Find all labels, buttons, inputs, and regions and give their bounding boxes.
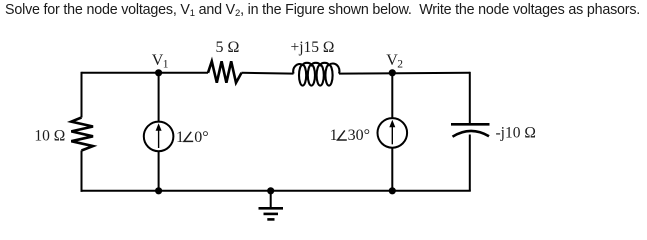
- wire V2 branch lower: [391, 148, 393, 191]
- inductor L +j15ohm (coil): [293, 63, 339, 86]
- wire top-left segment: [82, 72, 209, 74]
- wire left vertical: [81, 72, 83, 118]
- svg-text:+j15 Ω: +j15 Ω: [291, 39, 335, 56]
- node bottom-V1 dot: [155, 187, 162, 194]
- resistor R 5ohm (top horizontal zigzag): [208, 61, 242, 82]
- svg-text:1: 1: [163, 59, 169, 71]
- svg-text:1: 1: [330, 127, 338, 144]
- current source I2 arrow: [391, 125, 393, 145]
- current source I2 circle: [378, 118, 408, 148]
- node ground dot: [267, 187, 274, 194]
- node V2 dot: [389, 69, 396, 76]
- wire right vertical lower: [469, 135, 471, 191]
- capacitor C -j10ohm top plate: [451, 123, 490, 126]
- svg-text:-j10 Ω: -j10 Ω: [496, 124, 536, 141]
- node V1 dot: [155, 69, 162, 76]
- wire V1 branch lower: [158, 152, 160, 191]
- wire right vertical upper: [469, 72, 471, 126]
- resistor R 10ohm (left vertical zigzag): [71, 118, 93, 151]
- node bottom-V2 dot: [389, 187, 396, 194]
- wire V2 branch upper: [391, 73, 393, 118]
- svg-text:2: 2: [397, 59, 403, 71]
- capacitor C -j10ohm curved plate: [453, 131, 490, 137]
- wire V1 branch upper: [158, 73, 160, 122]
- svg-text:30°: 30°: [348, 127, 370, 144]
- svg-text:1: 1: [176, 129, 184, 146]
- wire left vertical lower: [81, 151, 83, 192]
- wire top-right segment: [339, 72, 470, 75]
- svg-text:0°: 0°: [194, 129, 208, 146]
- wire bottom: [81, 190, 471, 192]
- ground symbol: [259, 191, 284, 220]
- current source I1 arrow: [158, 128, 160, 148]
- svg-text:10 Ω: 10 Ω: [34, 127, 65, 144]
- wire top-middle segment: [242, 72, 294, 75]
- current source I1 circle: [144, 122, 174, 152]
- svg-text:5 Ω: 5 Ω: [216, 39, 240, 56]
